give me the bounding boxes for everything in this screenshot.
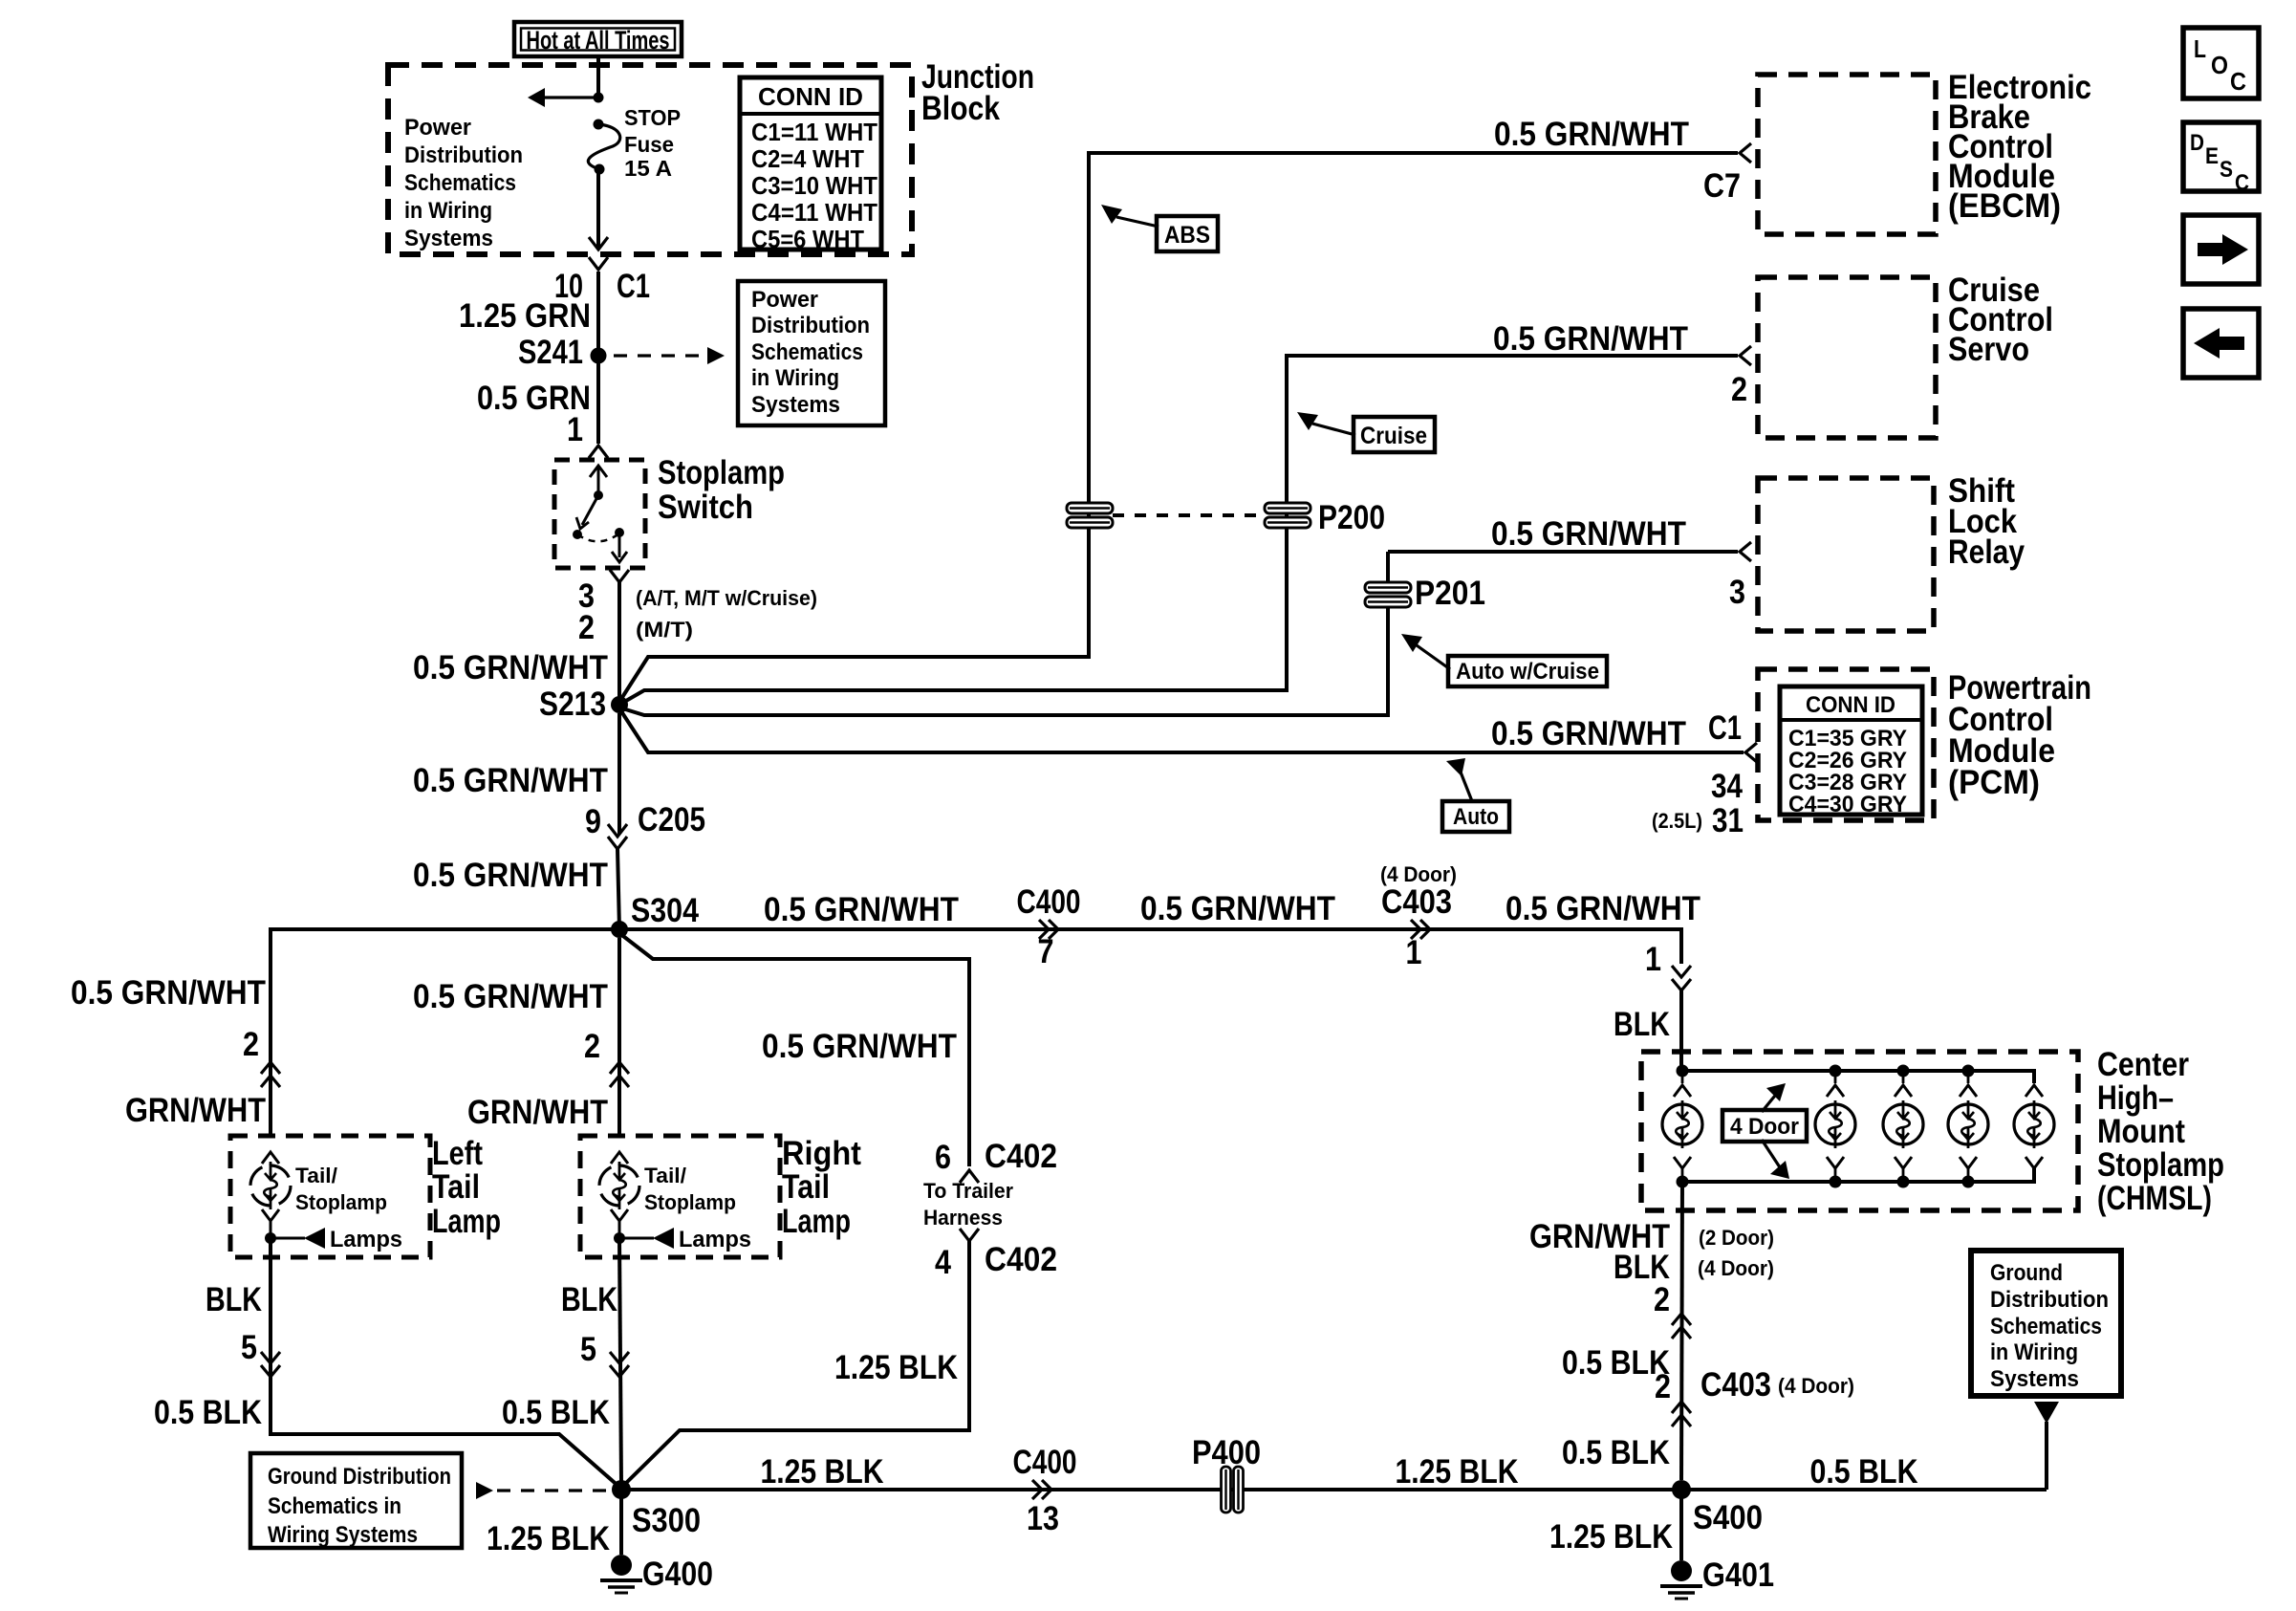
svg-text:Tail: Tail — [782, 1168, 830, 1206]
ABS variant label box with arrow — [1101, 205, 1122, 224]
in-line connector C400 pin 7 — [1039, 920, 1058, 939]
svg-text:1.25 GRN: 1.25 GRN — [459, 297, 591, 335]
dashed reference arrow from S241 — [614, 354, 709, 357]
svg-text:Cruise: Cruise — [1360, 423, 1427, 449]
svg-text:15 A: 15 A — [624, 156, 672, 181]
svg-text:4: 4 — [935, 1244, 951, 1281]
main ground wire S300 to right riser — [621, 1488, 2047, 1491]
CHMSL bulb 5 — [2025, 1085, 2043, 1097]
svg-text:0.5 GRN/WHT: 0.5 GRN/WHT — [1505, 890, 1700, 927]
CHMSL bottom bus junction dot — [1897, 1176, 1910, 1188]
svg-text:(2.5L): (2.5L) — [1652, 809, 1702, 833]
svg-text:STOP: STOP — [624, 105, 681, 130]
CHMSL bulb 4 — [1967, 1071, 1970, 1083]
forward arrow navigation icon — [2183, 215, 2259, 284]
svg-text:1.25 BLK: 1.25 BLK — [487, 1520, 610, 1557]
wire S213 to cruise control servo — [619, 356, 1738, 705]
connector chevrons (left pin 5) — [261, 1352, 280, 1377]
svg-text:Tail/: Tail/ — [295, 1164, 337, 1187]
svg-text:Ground Distribution: Ground Distribution — [268, 1464, 451, 1490]
CHMSL top bus wire — [1682, 1071, 2034, 1083]
Cruise variant label box with arrow — [1297, 412, 1318, 430]
svg-text:P200: P200 — [1318, 499, 1385, 536]
svg-text:Systems: Systems — [404, 226, 493, 251]
svg-text:1: 1 — [567, 411, 583, 448]
ground distribution schematics reference box (left) — [250, 1453, 462, 1548]
junction block dashed box — [388, 65, 912, 254]
svg-text:(M/T): (M/T) — [636, 618, 693, 642]
ground G401 — [1671, 1560, 1692, 1581]
svg-text:C: C — [2230, 67, 2246, 96]
svg-text:S241: S241 — [518, 334, 583, 371]
CHMSL bulb 1 — [1681, 1071, 1684, 1083]
svg-text:High–: High– — [2097, 1079, 2174, 1117]
splice node S213 — [611, 696, 628, 713]
svg-text:Schematics: Schematics — [1990, 1314, 2102, 1339]
wire S400 to ground G401 — [1679, 1490, 1683, 1560]
svg-text:Harness: Harness — [923, 1206, 1003, 1230]
svg-text:Lamp: Lamp — [782, 1203, 851, 1240]
svg-text:Lamp: Lamp — [432, 1203, 501, 1240]
svg-text:Distribution: Distribution — [1990, 1287, 2109, 1313]
cruise control servo dashed box — [1758, 277, 1936, 438]
svg-text:2: 2 — [578, 609, 595, 646]
dashed link between grommets — [1113, 513, 1265, 517]
svg-text:Stoplamp: Stoplamp — [2097, 1146, 2224, 1184]
svg-text:Right: Right — [782, 1135, 861, 1172]
svg-text:1.25 BLK: 1.25 BLK — [834, 1349, 958, 1386]
svg-text:7: 7 — [1038, 933, 1054, 970]
svg-text:4 Door: 4 Door — [1730, 1114, 1799, 1140]
stoplamp switch dashed box — [554, 460, 645, 568]
connector at CHMSL pin 1 — [1672, 966, 1691, 991]
svg-text:Schematics in: Schematics in — [268, 1493, 401, 1519]
svg-text:BLK: BLK — [561, 1281, 617, 1318]
power distribution schematics reference box — [738, 281, 885, 425]
back arrow navigation icon — [2183, 309, 2259, 378]
wire S304 to trailer harness connector — [619, 933, 969, 1166]
svg-text:Distribution: Distribution — [404, 142, 523, 168]
svg-text:Auto: Auto — [1453, 804, 1499, 830]
CHMSL bottom bus wire — [1682, 1168, 2034, 1182]
svg-text:S300: S300 — [632, 1502, 701, 1539]
svg-text:Stoplamp: Stoplamp — [658, 454, 785, 491]
svg-text:P201: P201 — [1415, 575, 1485, 612]
center high-mount stoplamp dashed box — [1641, 1052, 2078, 1210]
svg-text:in Wiring: in Wiring — [404, 198, 492, 224]
connector C402 pin 4 — [960, 1229, 979, 1241]
svg-text:13: 13 — [1027, 1500, 1059, 1537]
node dot for power distribution branch — [594, 93, 604, 103]
svg-text:1: 1 — [1406, 934, 1422, 971]
svg-text:0.5 BLK: 0.5 BLK — [1810, 1453, 1918, 1491]
left tail lamp box with tail/stoplamp bulb — [230, 1136, 430, 1257]
svg-text:P400: P400 — [1192, 1434, 1261, 1471]
svg-text:0.5 GRN/WHT: 0.5 GRN/WHT — [1493, 320, 1688, 358]
svg-text:0.5 BLK: 0.5 BLK — [154, 1394, 262, 1431]
svg-text:C400: C400 — [1017, 883, 1081, 921]
svg-text:(4 Door): (4 Door) — [1698, 1256, 1774, 1280]
wire S213 to C205 — [617, 713, 621, 834]
svg-text:C7: C7 — [1703, 167, 1741, 205]
svg-text:(PCM): (PCM) — [1948, 764, 2040, 801]
svg-text:Distribution: Distribution — [751, 313, 870, 338]
svg-text:(A/T, M/T w/Cruise): (A/T, M/T w/Cruise) — [636, 586, 817, 610]
firewall grommet P200 — [1265, 503, 1310, 513]
firewall grommet on ABS branch — [1067, 503, 1113, 513]
CHMSL top bus junction dot — [1962, 1065, 1975, 1078]
svg-text:Schematics: Schematics — [751, 339, 863, 365]
wire S241 to stoplamp switch — [596, 363, 600, 444]
splice node S304 — [611, 921, 628, 938]
right lamp ground wire to S300 — [619, 1238, 621, 1484]
svg-text:E: E — [2205, 143, 2219, 169]
connector chevrons (C403 ground) — [1672, 1402, 1691, 1426]
svg-text:Power: Power — [404, 115, 471, 141]
svg-text:3: 3 — [1729, 574, 1745, 611]
CHMSL bulb 2 — [1834, 1071, 1837, 1083]
svg-text:2: 2 — [1731, 371, 1747, 408]
svg-text:1.25 BLK: 1.25 BLK — [1396, 1453, 1519, 1491]
wire C1 pin10 to S241 — [596, 272, 600, 356]
svg-text:1: 1 — [1645, 941, 1661, 978]
Auto variant label box with arrow — [1446, 758, 1465, 776]
connector C1 male half (junction block side) — [589, 237, 608, 250]
svg-text:0.5 GRN/WHT: 0.5 GRN/WHT — [413, 762, 608, 799]
svg-text:Systems: Systems — [751, 392, 840, 418]
svg-text:C3=10 WHT: C3=10 WHT — [751, 171, 877, 200]
svg-text:ABS: ABS — [1164, 222, 1210, 249]
splice node S400 — [1672, 1480, 1691, 1499]
svg-text:GRN/WHT: GRN/WHT — [125, 1092, 266, 1129]
CHMSL ground wire to S400 — [1681, 1182, 1682, 1480]
svg-text:O: O — [2211, 51, 2228, 79]
svg-text:0.5 GRN/WHT: 0.5 GRN/WHT — [413, 978, 608, 1015]
svg-text:0.5 GRN/WHT: 0.5 GRN/WHT — [1491, 715, 1686, 752]
svg-text:Auto w/Cruise: Auto w/Cruise — [1456, 659, 1599, 685]
CHMSL top bus junction dot — [1897, 1065, 1910, 1078]
pass-through grommet P400 — [1222, 1467, 1231, 1513]
svg-text:2: 2 — [1655, 1368, 1671, 1405]
svg-text:C402: C402 — [985, 1138, 1057, 1175]
svg-text:(EBCM): (EBCM) — [1948, 187, 2061, 225]
svg-text:34: 34 — [1711, 768, 1743, 805]
svg-text:0.5 GRN/WHT: 0.5 GRN/WHT — [1140, 890, 1335, 927]
in-line connector C205 — [608, 824, 627, 837]
svg-text:BLK: BLK — [1614, 1006, 1670, 1043]
svg-text:0.5 GRN/WHT: 0.5 GRN/WHT — [762, 1028, 957, 1065]
svg-text:0.5 BLK: 0.5 BLK — [1562, 1434, 1670, 1471]
svg-text:C402: C402 — [985, 1241, 1057, 1278]
arrow to power distribution schematics — [535, 96, 598, 98]
connector chevrons (right pin 5) — [610, 1352, 629, 1377]
splice node S241 — [591, 348, 607, 364]
svg-text:BLK: BLK — [206, 1281, 262, 1318]
svg-text:S400: S400 — [1693, 1499, 1763, 1536]
svg-text:5: 5 — [580, 1331, 596, 1368]
wire stoplamp switch to S213 — [617, 582, 621, 705]
svg-text:0.5 GRN/WHT: 0.5 GRN/WHT — [764, 891, 959, 928]
svg-text:Mount: Mount — [2097, 1113, 2185, 1150]
svg-text:Center: Center — [2097, 1046, 2189, 1083]
in-line connector C400 pin 13 — [1032, 1480, 1051, 1499]
svg-text:Stoplamp: Stoplamp — [295, 1190, 387, 1214]
firewall grommet P201 — [1365, 582, 1411, 593]
svg-text:0.5 BLK: 0.5 BLK — [502, 1394, 610, 1431]
svg-text:31: 31 — [1712, 802, 1744, 839]
junction block CONN ID table — [740, 77, 881, 250]
4 Door variant label box with arrows — [1762, 1091, 1779, 1112]
svg-text:Hot at All Times: Hot at All Times — [527, 26, 670, 54]
svg-text:Switch: Switch — [658, 489, 753, 526]
fuse F-STOP 15A — [594, 120, 604, 130]
svg-text:D: D — [2190, 130, 2204, 156]
PCM CONN ID table — [1780, 686, 1922, 815]
svg-text:0.5 GRN/WHT: 0.5 GRN/WHT — [413, 857, 608, 894]
Auto w/Cruise variant label box with arrow — [1401, 634, 1422, 652]
svg-text:0.5 GRN/WHT: 0.5 GRN/WHT — [413, 649, 608, 686]
svg-text:Tail/: Tail/ — [644, 1164, 686, 1187]
wire S213 to EBCM (ABS branch) — [619, 153, 1738, 702]
powertrain control module PCM dashed box — [1758, 669, 1934, 820]
svg-text:Lamps: Lamps — [679, 1227, 751, 1252]
connector chevrons (right lamp pin 2) — [610, 1062, 629, 1087]
svg-text:Power: Power — [751, 287, 818, 313]
svg-text:Schematics: Schematics — [404, 170, 516, 196]
stoplamp switch output connector — [610, 570, 629, 582]
CHMSL top bus junction dot — [1677, 1065, 1689, 1078]
svg-text:Block: Block — [921, 90, 1000, 127]
svg-text:(2 Door): (2 Door) — [1699, 1226, 1774, 1250]
ground distribution schematics reference box (right) — [1971, 1251, 2121, 1396]
svg-text:C403: C403 — [1381, 883, 1452, 921]
connector chevrons (CHMSL pin 2) — [1672, 1314, 1691, 1339]
connector C402 pin 6 — [960, 1170, 979, 1183]
stoplamp switch connector female half — [589, 446, 608, 458]
svg-text:C4=30 GRY: C4=30 GRY — [1788, 792, 1907, 817]
wire from Hot at All Times into junction block — [596, 56, 600, 98]
dashed reference arrow into S300 — [476, 1482, 493, 1499]
svg-text:2: 2 — [1654, 1281, 1670, 1318]
svg-text:1.25 BLK: 1.25 BLK — [1549, 1518, 1673, 1556]
wire from fuse to junction block edge — [596, 169, 600, 248]
DESC navigation icon — [2183, 122, 2259, 191]
svg-text:Left: Left — [432, 1135, 483, 1172]
in-line connector C403 pin 1 — [1411, 920, 1430, 939]
svg-text:6: 6 — [935, 1139, 951, 1176]
CHMSL bottom bus junction dot — [1962, 1176, 1975, 1188]
CHMSL bottom bus junction dot (feed) — [1677, 1176, 1689, 1188]
svg-text:C: C — [2235, 170, 2249, 196]
svg-text:G400: G400 — [642, 1556, 713, 1593]
svg-text:CONN ID: CONN ID — [758, 82, 863, 111]
stoplamp switch contacts and blade — [590, 466, 607, 477]
svg-text:Ground: Ground — [1990, 1260, 2063, 1286]
wire S300 to ground G400 — [619, 1490, 623, 1555]
svg-text:0.5 GRN/WHT: 0.5 GRN/WHT — [71, 974, 266, 1012]
svg-text:C205: C205 — [638, 801, 705, 838]
power feed label box 'Hot at All Times' — [514, 22, 682, 56]
svg-text:Stoplamp: Stoplamp — [644, 1190, 736, 1214]
riser to ground distribution reference box (right) — [2045, 1422, 2048, 1490]
svg-text:0.5 GRN/WHT: 0.5 GRN/WHT — [1494, 116, 1689, 153]
wire S304 to CHMSL feed — [619, 929, 1681, 964]
CHMSL top bus junction dot — [1830, 1065, 1842, 1078]
svg-text:To Trailer: To Trailer — [923, 1179, 1013, 1203]
svg-text:GRN/WHT: GRN/WHT — [467, 1094, 608, 1131]
CHMSL bottom bus junction dot — [1830, 1176, 1842, 1188]
LOC navigation icon — [2183, 28, 2259, 98]
svg-text:C1=11 WHT: C1=11 WHT — [751, 118, 877, 146]
svg-text:Relay: Relay — [1948, 533, 2025, 571]
svg-text:Fuse: Fuse — [624, 132, 674, 157]
wire S213 to PCM — [619, 708, 1744, 752]
trailer ground wire to S300 — [621, 1241, 969, 1488]
left lamp ground wire to S300 — [271, 1238, 621, 1489]
svg-text:C1: C1 — [1708, 709, 1742, 747]
svg-text:Wiring Systems: Wiring Systems — [268, 1522, 418, 1548]
svg-text:(CHMSL): (CHMSL) — [2097, 1180, 2212, 1217]
svg-text:S213: S213 — [539, 686, 606, 723]
svg-text:C400: C400 — [1013, 1444, 1077, 1481]
svg-text:(4 Door): (4 Door) — [1778, 1374, 1854, 1398]
svg-text:C1: C1 — [617, 268, 650, 305]
splice node S300 — [612, 1480, 631, 1499]
electronic brake control module EBCM dashed box — [1758, 75, 1936, 234]
svg-text:Systems: Systems — [1990, 1366, 2079, 1392]
svg-text:L: L — [2194, 34, 2206, 63]
svg-text:C4=11 WHT: C4=11 WHT — [751, 198, 877, 227]
svg-text:CONN ID: CONN ID — [1806, 692, 1895, 718]
svg-text:Tail: Tail — [432, 1168, 480, 1206]
wire into CHMSL — [1679, 991, 1683, 1071]
wire C205 to S304 — [617, 849, 619, 929]
svg-text:5: 5 — [241, 1329, 257, 1366]
ground G400 — [611, 1555, 632, 1576]
svg-text:S: S — [2220, 157, 2233, 183]
svg-text:9: 9 — [585, 803, 601, 840]
wire S304 to right tail lamp — [617, 938, 621, 1134]
svg-text:2: 2 — [243, 1026, 259, 1063]
connector chevrons (left lamp pin 2) — [261, 1062, 280, 1087]
svg-text:1.25 BLK: 1.25 BLK — [761, 1453, 884, 1491]
svg-text:Lamps: Lamps — [330, 1227, 402, 1252]
svg-text:in Wiring: in Wiring — [751, 365, 839, 391]
right tail lamp box with tail/stoplamp bulb — [580, 1136, 780, 1257]
svg-text:C403: C403 — [1700, 1366, 1771, 1404]
svg-text:Servo: Servo — [1948, 331, 2029, 368]
wire S213 to shift lock relay via P201 — [619, 608, 1388, 715]
connector C1 female half — [589, 257, 608, 270]
svg-text:G401: G401 — [1702, 1557, 1774, 1594]
shift lock relay dashed box — [1758, 478, 1934, 631]
svg-text:C2=4 WHT: C2=4 WHT — [751, 144, 864, 173]
CHMSL bulb 3 — [1902, 1071, 1905, 1083]
wire S304 to left tail lamp — [271, 929, 619, 1134]
svg-text:S304: S304 — [631, 892, 699, 929]
svg-text:2: 2 — [584, 1028, 600, 1065]
svg-text:0.5 GRN/WHT: 0.5 GRN/WHT — [1491, 515, 1686, 553]
svg-text:in Wiring: in Wiring — [1990, 1339, 2078, 1365]
svg-text:C5=6 WHT: C5=6 WHT — [751, 225, 864, 253]
